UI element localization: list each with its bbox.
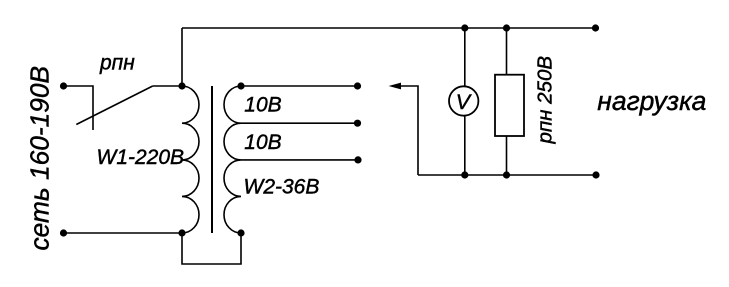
svg-text:нагрузка: нагрузка [597,86,706,116]
svg-text:W2-36В: W2-36В [244,175,320,198]
svg-text:10В: 10В [244,131,281,154]
wire: primary top up to top bus [181,28,183,86]
node: top bus / voltmeter [461,24,468,31]
node: bottom bus load terminal [592,171,599,178]
wire: switch to transformer primary top [153,85,182,87]
wire: bottom bus [418,174,596,176]
node: tap 2 end [354,120,361,127]
transformer T1 primary winding W1 [182,86,199,233]
wire: voltmeter top lead [464,28,466,86]
svg-text:W1-220В: W1-220В [97,146,185,169]
wire: left bottom terminal to primary bottom [64,232,183,234]
arrow: tap selector pointer [389,83,401,90]
wire: resistor top lead [506,28,508,75]
node: tap 3 end [354,156,361,163]
node: tap 1 end [354,82,361,89]
voltmeter PV1 [449,86,478,115]
wire: resistor bottom lead [506,136,508,175]
transformer core [211,86,213,233]
node: primary bottom [178,229,185,236]
wire: tap 3 [241,159,358,161]
node: secondary top tap [237,82,244,89]
wire: tap 1 [241,85,358,87]
wire: tap selector arrow feed [400,86,418,175]
node: primary top junction [178,82,185,89]
svg-text:рпн: рпн [99,51,135,74]
svg-text:10В: 10В [244,94,281,117]
node: bottom bus / resistor [503,171,510,178]
resistor (lamp) рпн 250В [495,75,524,136]
svg-text:рпн 250В: рпн 250В [534,56,557,145]
node: left top input terminal [60,82,67,89]
node: bottom bus / voltmeter [461,171,468,178]
switch SA (рпн tap selector blade) [76,86,152,125]
node: left bottom input terminal [60,229,67,236]
transformer T1 secondary winding W2 [224,86,241,233]
svg-text:сеть 160-190В: сеть 160-190В [25,66,55,251]
wire: tap 2 [241,122,358,124]
node: top bus / lamp resistor [503,24,510,31]
wire: top bus [182,27,596,29]
node: top bus load terminal [592,24,599,31]
wire: voltmeter bottom lead [464,116,466,175]
wire: primary bottom to secondary bottom link [182,233,241,264]
wire: left top terminal to switch [64,86,94,130]
node: secondary bottom [237,229,244,236]
